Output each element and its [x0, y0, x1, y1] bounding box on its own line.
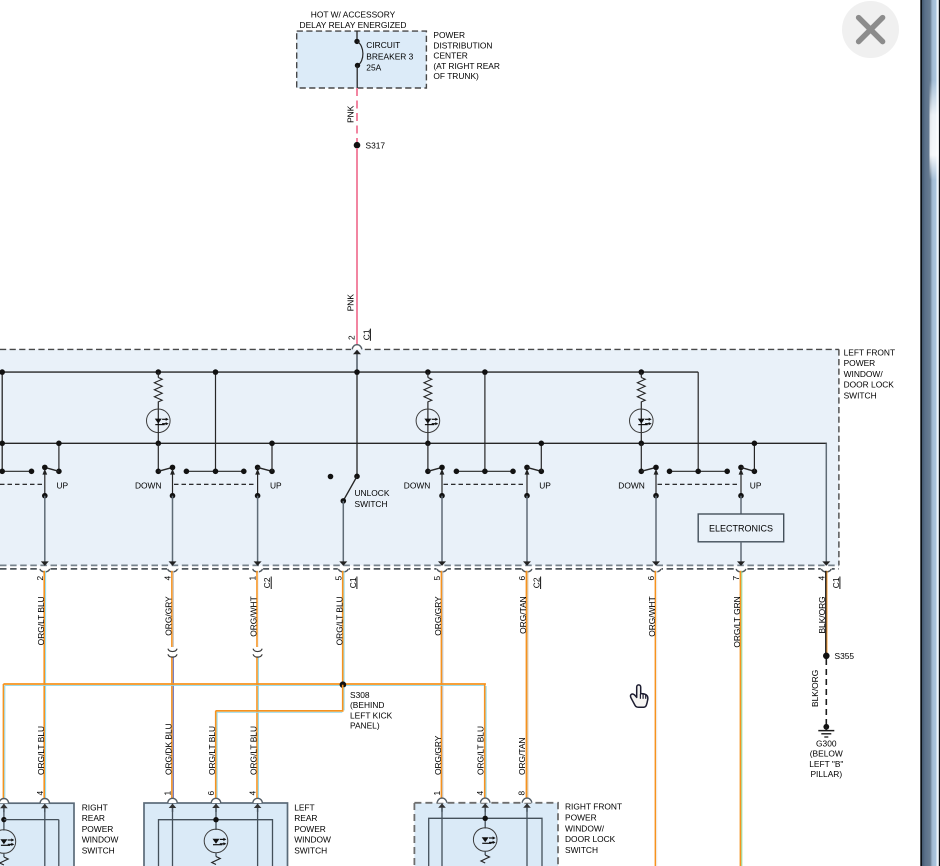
svg-text:1: 1: [248, 576, 258, 581]
svg-text:BREAKER 3: BREAKER 3: [366, 51, 413, 61]
svg-text:(BELOW: (BELOW: [810, 749, 843, 759]
svg-text:DISTRIBUTION: DISTRIBUTION: [433, 40, 492, 50]
svg-text:ORG/GRY: ORG/GRY: [433, 596, 443, 636]
svg-text:POWER: POWER: [433, 30, 465, 40]
svg-text:4: 4: [248, 791, 258, 796]
svg-text:SWITCH: SWITCH: [565, 845, 598, 855]
svg-text:ORG/GRY: ORG/GRY: [164, 596, 174, 636]
svg-text:SWITCH: SWITCH: [844, 391, 877, 401]
svg-text:ORG/WHT: ORG/WHT: [647, 596, 657, 636]
svg-text:SWITCH: SWITCH: [82, 846, 115, 856]
svg-text:2: 2: [35, 576, 45, 581]
svg-text:RIGHT FRONT: RIGHT FRONT: [565, 802, 622, 812]
svg-text:WINDOW: WINDOW: [294, 835, 331, 845]
svg-text:ORG/LT BLU: ORG/LT BLU: [476, 726, 486, 775]
svg-text:1: 1: [432, 791, 442, 796]
svg-text:RIGHT: RIGHT: [82, 802, 108, 812]
svg-text:LEFT "B": LEFT "B": [809, 759, 843, 769]
svg-text:ORG/TAN: ORG/TAN: [518, 596, 528, 634]
svg-text:ELECTRONICS: ELECTRONICS: [709, 524, 773, 534]
svg-text:S355: S355: [835, 651, 855, 661]
svg-text:UP: UP: [270, 480, 282, 490]
svg-text:DOOR LOCK: DOOR LOCK: [565, 834, 616, 844]
svg-text:UP: UP: [539, 480, 551, 490]
svg-text:CENTER: CENTER: [433, 51, 467, 61]
svg-text:7: 7: [731, 576, 741, 581]
svg-text:POWER: POWER: [82, 824, 114, 834]
svg-text:25A: 25A: [366, 63, 381, 73]
svg-text:ORG/LT GRN: ORG/LT GRN: [732, 596, 742, 647]
svg-text:6: 6: [646, 576, 656, 581]
svg-text:(AT RIGHT REAR: (AT RIGHT REAR: [433, 61, 500, 71]
svg-text:DOWN: DOWN: [135, 480, 162, 490]
svg-text:ORG/GRY: ORG/GRY: [433, 735, 443, 775]
svg-text:WINDOW/: WINDOW/: [565, 823, 605, 833]
svg-text:PILLAR): PILLAR): [810, 769, 842, 779]
svg-text:DOWN: DOWN: [618, 480, 645, 490]
svg-text:HOT W/ ACCESSORY: HOT W/ ACCESSORY: [311, 9, 396, 19]
svg-text:ORG/DK BLU: ORG/DK BLU: [164, 723, 174, 775]
svg-text:4: 4: [816, 576, 826, 581]
svg-text:UNLOCK: UNLOCK: [355, 488, 390, 498]
svg-text:S317: S317: [366, 141, 386, 151]
svg-text:BLK/ORG: BLK/ORG: [817, 596, 827, 633]
svg-text:1: 1: [163, 791, 173, 796]
svg-text:6: 6: [517, 576, 527, 581]
svg-text:PNK: PNK: [346, 294, 356, 312]
svg-text:8: 8: [516, 791, 526, 796]
svg-text:ORG/LT BLU: ORG/LT BLU: [36, 726, 46, 775]
svg-text:4: 4: [163, 576, 173, 581]
svg-text:ORG/LT BLU: ORG/LT BLU: [207, 726, 217, 775]
svg-text:ORG/LT BLU: ORG/LT BLU: [249, 726, 259, 775]
svg-text:PNK: PNK: [346, 105, 356, 123]
svg-text:(BEHIND: (BEHIND: [350, 700, 384, 710]
svg-text:G300: G300: [816, 738, 837, 748]
svg-text:WINDOW/: WINDOW/: [844, 369, 884, 379]
svg-text:UP: UP: [750, 480, 762, 490]
svg-text:CIRCUIT: CIRCUIT: [366, 40, 400, 50]
svg-text:SWITCH: SWITCH: [355, 499, 388, 509]
svg-text:SWITCH: SWITCH: [294, 846, 327, 856]
svg-text:4: 4: [35, 791, 45, 796]
svg-text:POWER: POWER: [294, 824, 326, 834]
svg-text:POWER: POWER: [565, 812, 597, 822]
svg-text:LEFT: LEFT: [294, 802, 314, 812]
svg-text:4: 4: [475, 791, 485, 796]
svg-text:5: 5: [432, 576, 442, 581]
svg-text:DOOR LOCK: DOOR LOCK: [844, 380, 895, 390]
svg-text:2: 2: [347, 335, 357, 340]
svg-text:WINDOW: WINDOW: [82, 835, 119, 845]
svg-text:5: 5: [333, 576, 343, 581]
svg-text:LEFT KICK: LEFT KICK: [350, 710, 393, 720]
svg-text:6: 6: [206, 791, 216, 796]
svg-text:DELAY RELAY ENERGIZED: DELAY RELAY ENERGIZED: [300, 20, 407, 30]
svg-text:S308: S308: [350, 690, 370, 700]
svg-text:PANEL): PANEL): [350, 721, 380, 731]
svg-text:DOWN: DOWN: [404, 480, 431, 490]
svg-text:BLK/ORG: BLK/ORG: [810, 670, 820, 707]
svg-text:UP: UP: [57, 480, 69, 490]
svg-text:ORG/WHT: ORG/WHT: [249, 596, 259, 636]
svg-text:ORG/LT BLU: ORG/LT BLU: [36, 596, 46, 645]
svg-text:REAR: REAR: [294, 813, 317, 823]
svg-text:LEFT FRONT: LEFT FRONT: [844, 347, 896, 357]
svg-text:ORG/LT BLU: ORG/LT BLU: [334, 596, 344, 645]
svg-text:POWER: POWER: [844, 358, 876, 368]
svg-text:REAR: REAR: [82, 813, 105, 823]
svg-text:ORG/TAN: ORG/TAN: [517, 737, 527, 775]
svg-text:OF TRUNK): OF TRUNK): [433, 71, 479, 81]
